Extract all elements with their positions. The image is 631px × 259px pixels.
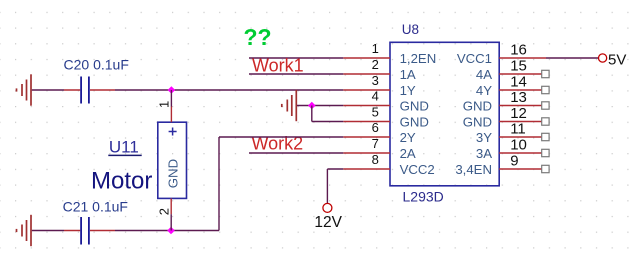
svg-text:2: 2 — [372, 57, 379, 72]
no-connect square on pin 12 — [542, 118, 549, 125]
svg-text:3: 3 — [372, 73, 379, 88]
ground symbol GND3 (bottom left) — [30, 215, 32, 246]
wire net Work2 to pin 7 (2A) — [249, 152, 343, 154]
svg-text:4A: 4A — [476, 67, 492, 82]
svg-text:GND: GND — [166, 159, 181, 188]
svg-text:1Y: 1Y — [400, 83, 416, 98]
U8 pin 6 stub — [343, 136, 390, 138]
svg-text:GND: GND — [463, 99, 492, 114]
svg-text:3Y: 3Y — [476, 130, 492, 145]
motor U11 body — [158, 122, 187, 198]
svg-text:1: 1 — [156, 101, 171, 108]
motor pin 2 wire — [170, 214, 172, 230]
svg-text:5: 5 — [372, 105, 379, 120]
svg-text:Motor: Motor — [91, 168, 152, 195]
svg-text:7: 7 — [372, 136, 379, 151]
U8 pin 7 stub — [343, 152, 390, 154]
wire vertical GND junction to row 5 — [311, 106, 313, 122]
svg-text:L293D: L293D — [403, 189, 444, 205]
U8 pin 15 stub — [499, 73, 542, 75]
capacitor C21 plates — [80, 217, 82, 245]
svg-text:C21 0.1uF: C21 0.1uF — [63, 199, 128, 215]
wire vertical 12V riser — [326, 169, 328, 203]
svg-text:3A: 3A — [476, 146, 492, 161]
svg-text:U8: U8 — [402, 22, 419, 37]
12V terminal circle — [323, 203, 332, 212]
svg-text:13: 13 — [510, 89, 527, 106]
wire ground2 to pin 4 (GND) — [297, 105, 343, 107]
no-connect square on pin 9 — [542, 165, 549, 172]
U8 pin 16 stub — [499, 57, 546, 59]
svg-text:11: 11 — [510, 121, 526, 138]
svg-text:12: 12 — [510, 105, 527, 122]
capacitor C20 right lead — [90, 89, 115, 91]
svg-text:9: 9 — [510, 153, 518, 170]
capacitor C20 left lead — [64, 89, 80, 91]
ground symbol GND2 (middle, rows GND) — [295, 90, 297, 121]
svg-text:8: 8 — [372, 152, 379, 167]
U8 pin 12 stub — [499, 121, 542, 123]
U8 pin 8 stub — [343, 168, 390, 170]
svg-text:VCC1: VCC1 — [457, 51, 492, 66]
svg-text:C20 0.1uF: C20 0.1uF — [64, 57, 129, 73]
no-connect square on pin 10 — [542, 149, 549, 156]
svg-text:VCC2: VCC2 — [400, 162, 435, 177]
U8 pin 14 stub — [499, 89, 542, 91]
U8 pin 9 stub — [499, 168, 542, 170]
svg-text:GND: GND — [463, 115, 492, 130]
no-connect square on pin 14 — [542, 86, 549, 93]
no-connect square on pin 11 — [542, 133, 549, 140]
wire net to pin 1 (1,2EN) — [249, 57, 343, 59]
U8 pin 1 stub — [343, 57, 390, 59]
svg-text:1A: 1A — [400, 67, 416, 82]
IC U8 L293D body — [390, 42, 499, 186]
U8 pin 5 stub — [343, 121, 390, 123]
junction node motor pin1 / 1Y — [168, 86, 176, 94]
U8 pin 4 stub — [343, 105, 390, 107]
svg-text:2Y: 2Y — [400, 130, 416, 145]
svg-text:2A: 2A — [400, 146, 416, 161]
no-connect square on pin 13 — [542, 102, 549, 109]
svg-text:6: 6 — [372, 120, 379, 135]
svg-text:GND: GND — [400, 115, 429, 130]
wire ground to C20 — [32, 89, 64, 91]
svg-text:5V: 5V — [608, 52, 626, 69]
svg-text:14: 14 — [510, 74, 527, 91]
svg-text:1: 1 — [372, 41, 379, 56]
wire to pin 6 (2Y) — [219, 136, 343, 138]
svg-text:2: 2 — [157, 208, 172, 215]
wire pin16 to 5V terminal — [546, 57, 598, 59]
capacitor C21 right lead — [90, 230, 115, 232]
svg-text:4: 4 — [372, 89, 379, 104]
wire riser motor pin2 net to row 6 — [218, 137, 220, 231]
svg-text:16: 16 — [510, 42, 527, 59]
motor pin 2 stub — [170, 198, 172, 214]
svg-text:GND: GND — [400, 99, 429, 114]
wire ground3 to C21 — [32, 230, 64, 232]
svg-text:1,2EN: 1,2EN — [400, 51, 437, 66]
svg-text:10: 10 — [510, 137, 527, 154]
capacitor C21 left lead — [64, 230, 80, 232]
wire 12V to pin 8 (VCC2) — [327, 168, 343, 170]
svg-text:15: 15 — [510, 58, 527, 75]
svg-text:Work1: Work1 — [252, 56, 304, 76]
wire C20 to pin 3 (1Y) — [115, 89, 343, 91]
wire C21 to riser — [115, 230, 219, 232]
junction node GND rows — [308, 102, 316, 110]
U8 pin 3 stub — [343, 89, 390, 91]
wire to pin 5 (GND) — [312, 121, 344, 123]
motor pin 1 stub — [170, 107, 172, 123]
U8 pin 10 stub — [499, 152, 542, 154]
U11 underline — [108, 154, 141, 156]
svg-text:4Y: 4Y — [476, 83, 492, 98]
U8 pin 2 stub — [343, 73, 390, 75]
junction node motor pin2 — [167, 227, 175, 235]
5V terminal circle — [599, 54, 607, 62]
ground symbol GND1 (left, row 1Y) — [30, 74, 32, 105]
svg-text:??: ?? — [244, 24, 272, 50]
motor plus sign — [169, 131, 177, 133]
capacitor C20 plates — [80, 77, 82, 104]
U8 pin 13 stub — [499, 105, 542, 107]
motor pin 1 wire (to 1Y net) — [170, 90, 172, 107]
U8 pin 11 stub — [499, 136, 542, 138]
svg-text:12V: 12V — [314, 214, 342, 231]
wire net Work1 to pin 2 (1A) — [249, 73, 343, 75]
no-connect square on pin 15 — [542, 70, 549, 77]
svg-text:3,4EN: 3,4EN — [455, 162, 492, 177]
svg-text:U11: U11 — [109, 138, 139, 157]
